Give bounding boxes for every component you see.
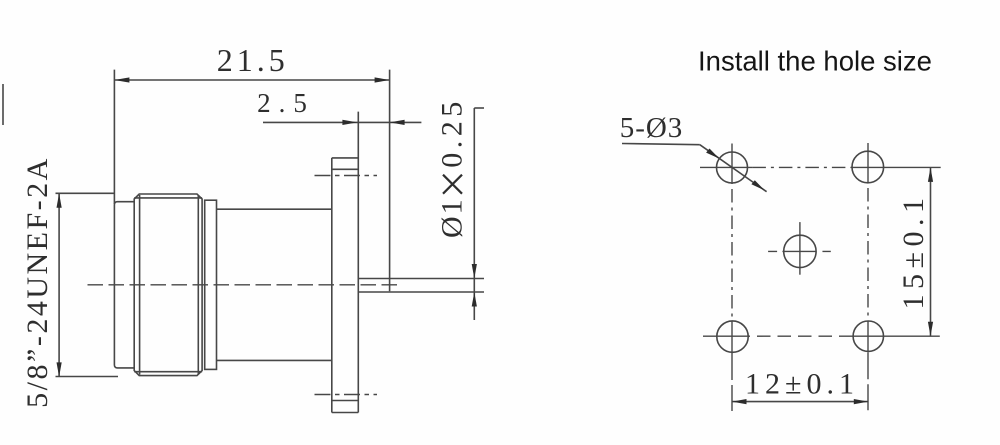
coupling nut main body outline	[134, 194, 202, 376]
body cylinder bottom line	[217, 359, 332, 361]
arrow 5/8 bottom	[57, 362, 62, 377]
arrow pin dia bottom	[472, 292, 477, 307]
dimension line 21.5	[114, 79, 389, 81]
svg-text:0.25: 0.25	[436, 97, 469, 168]
body cylinder top line	[217, 208, 332, 210]
centerline of connector axis	[88, 284, 403, 286]
dim text pin diameter	[436, 97, 469, 238]
arrow 5/8 top	[57, 193, 62, 208]
extension line left of 21.5	[113, 70, 115, 204]
arrows right view	[706, 149, 933, 405]
dimension line 2.5	[263, 121, 421, 123]
center pin	[358, 278, 484, 280]
thread extension line top	[56, 192, 115, 194]
flange hole centerline bottom	[315, 394, 378, 396]
arrows left view	[57, 77, 477, 377]
svg-text:21.5: 21.5	[217, 42, 289, 78]
centerline vertical left holes	[731, 144, 733, 412]
nut chamfer line bottom	[134, 371, 202, 373]
arrow 15 bottom	[928, 322, 933, 337]
thread extension line bottom	[56, 376, 119, 378]
svg-text:5/8”-24UNEF-2A: 5/8”-24UNEF-2A	[21, 156, 54, 408]
arrow leader at hole edge	[706, 149, 719, 159]
arrow 2.5 left	[342, 120, 357, 125]
svg-text:2.5: 2.5	[257, 88, 315, 118]
hole top-right	[852, 151, 884, 183]
extension line at pin shoulder	[389, 70, 391, 292]
svg-text:Install the hole size: Install the hole size	[698, 46, 932, 77]
center hole cross vertical	[799, 222, 801, 275]
nut chamfer line top	[134, 197, 202, 199]
hole bottom-right	[853, 321, 883, 351]
arrow 21.5 left	[114, 77, 129, 82]
dimension line pin diameter	[473, 108, 475, 320]
center hole cross horizontal	[768, 250, 831, 252]
svg-text:5-Ø3: 5-Ø3	[620, 112, 684, 144]
arrow 15 top	[928, 167, 933, 182]
arrow pin dia top	[472, 264, 477, 279]
hole bottom-left	[717, 321, 748, 352]
hole top-left	[717, 152, 748, 183]
arrow 12 right	[854, 399, 869, 404]
arrow 12 left	[732, 399, 747, 404]
nut inner vertical right	[197, 195, 199, 375]
centerline horizontal bottom holes	[703, 335, 940, 337]
arrow 21.5 right	[375, 77, 390, 82]
arrow 2.5 right	[390, 120, 405, 125]
svg-text:12±0.1: 12±0.1	[745, 368, 859, 401]
svg-text:15±0.1: 15±0.1	[897, 193, 930, 310]
flange hole centerline top	[315, 175, 378, 177]
thread dimension line 5/8	[58, 193, 60, 377]
dimension line 15	[930, 167, 932, 336]
leader 5-O3 underline	[622, 144, 700, 145]
flange plate	[332, 112, 359, 413]
cropped line fragment at left edge	[2, 84, 4, 125]
leader 5-O3 diagonal	[700, 145, 767, 192]
svg-text:Ø1: Ø1	[436, 197, 469, 238]
arrow leader end	[751, 180, 764, 190]
coupling nut left rim	[114, 202, 134, 368]
centerline horizontal top holes	[700, 166, 941, 168]
mid band between nut and body	[205, 200, 217, 369]
dimension line 12	[732, 401, 868, 403]
nut inner vertical left	[139, 195, 141, 375]
center hole	[784, 235, 816, 267]
centerline vertical right holes	[867, 143, 869, 411]
